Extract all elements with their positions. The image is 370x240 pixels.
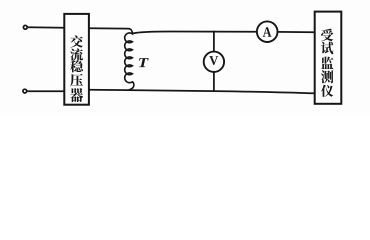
wire: transformer junction to ammeter (top rail) — [133, 32, 258, 34]
label right-box char 测 — [321, 70, 333, 83]
terminal bottom-left input — [23, 89, 27, 93]
label right-box char 仪 — [321, 85, 333, 97]
label V voltmeter letter — [209, 56, 218, 65]
ammeter A circle — [257, 21, 278, 42]
label left-box char 交 — [70, 35, 83, 47]
label A ammeter letter — [263, 27, 272, 37]
terminal top-left input — [23, 25, 27, 29]
label right-box char 试 — [321, 42, 333, 55]
label right-box char 监 — [321, 57, 333, 69]
label left-box char 压 — [70, 74, 83, 87]
wire: ammeter to monitor box — [278, 31, 315, 33]
transformer T winding coil — [125, 29, 134, 90]
wire: stabilizer box to transformer top junction — [89, 27, 129, 30]
voltmeter V circle — [204, 52, 224, 72]
AC stabilizer box outline — [64, 14, 89, 105]
label T for transformer — [139, 58, 149, 67]
wire stub: top rail to voltmeter — [213, 31, 215, 51]
wire top-left: terminal to stabilizer box — [28, 26, 65, 28]
label right-box char 受 — [321, 29, 333, 42]
monitored instrument box outline — [315, 12, 342, 104]
label left-box char 稳 — [70, 60, 83, 72]
bottom rail: stabilizer box to monitor box — [89, 90, 315, 94]
label left-box char 器 — [70, 88, 83, 102]
label left-box char 流 — [70, 48, 83, 60]
wire stub: voltmeter to bottom rail — [213, 72, 215, 91]
wire bottom-left: terminal to stabilizer box — [27, 90, 64, 92]
